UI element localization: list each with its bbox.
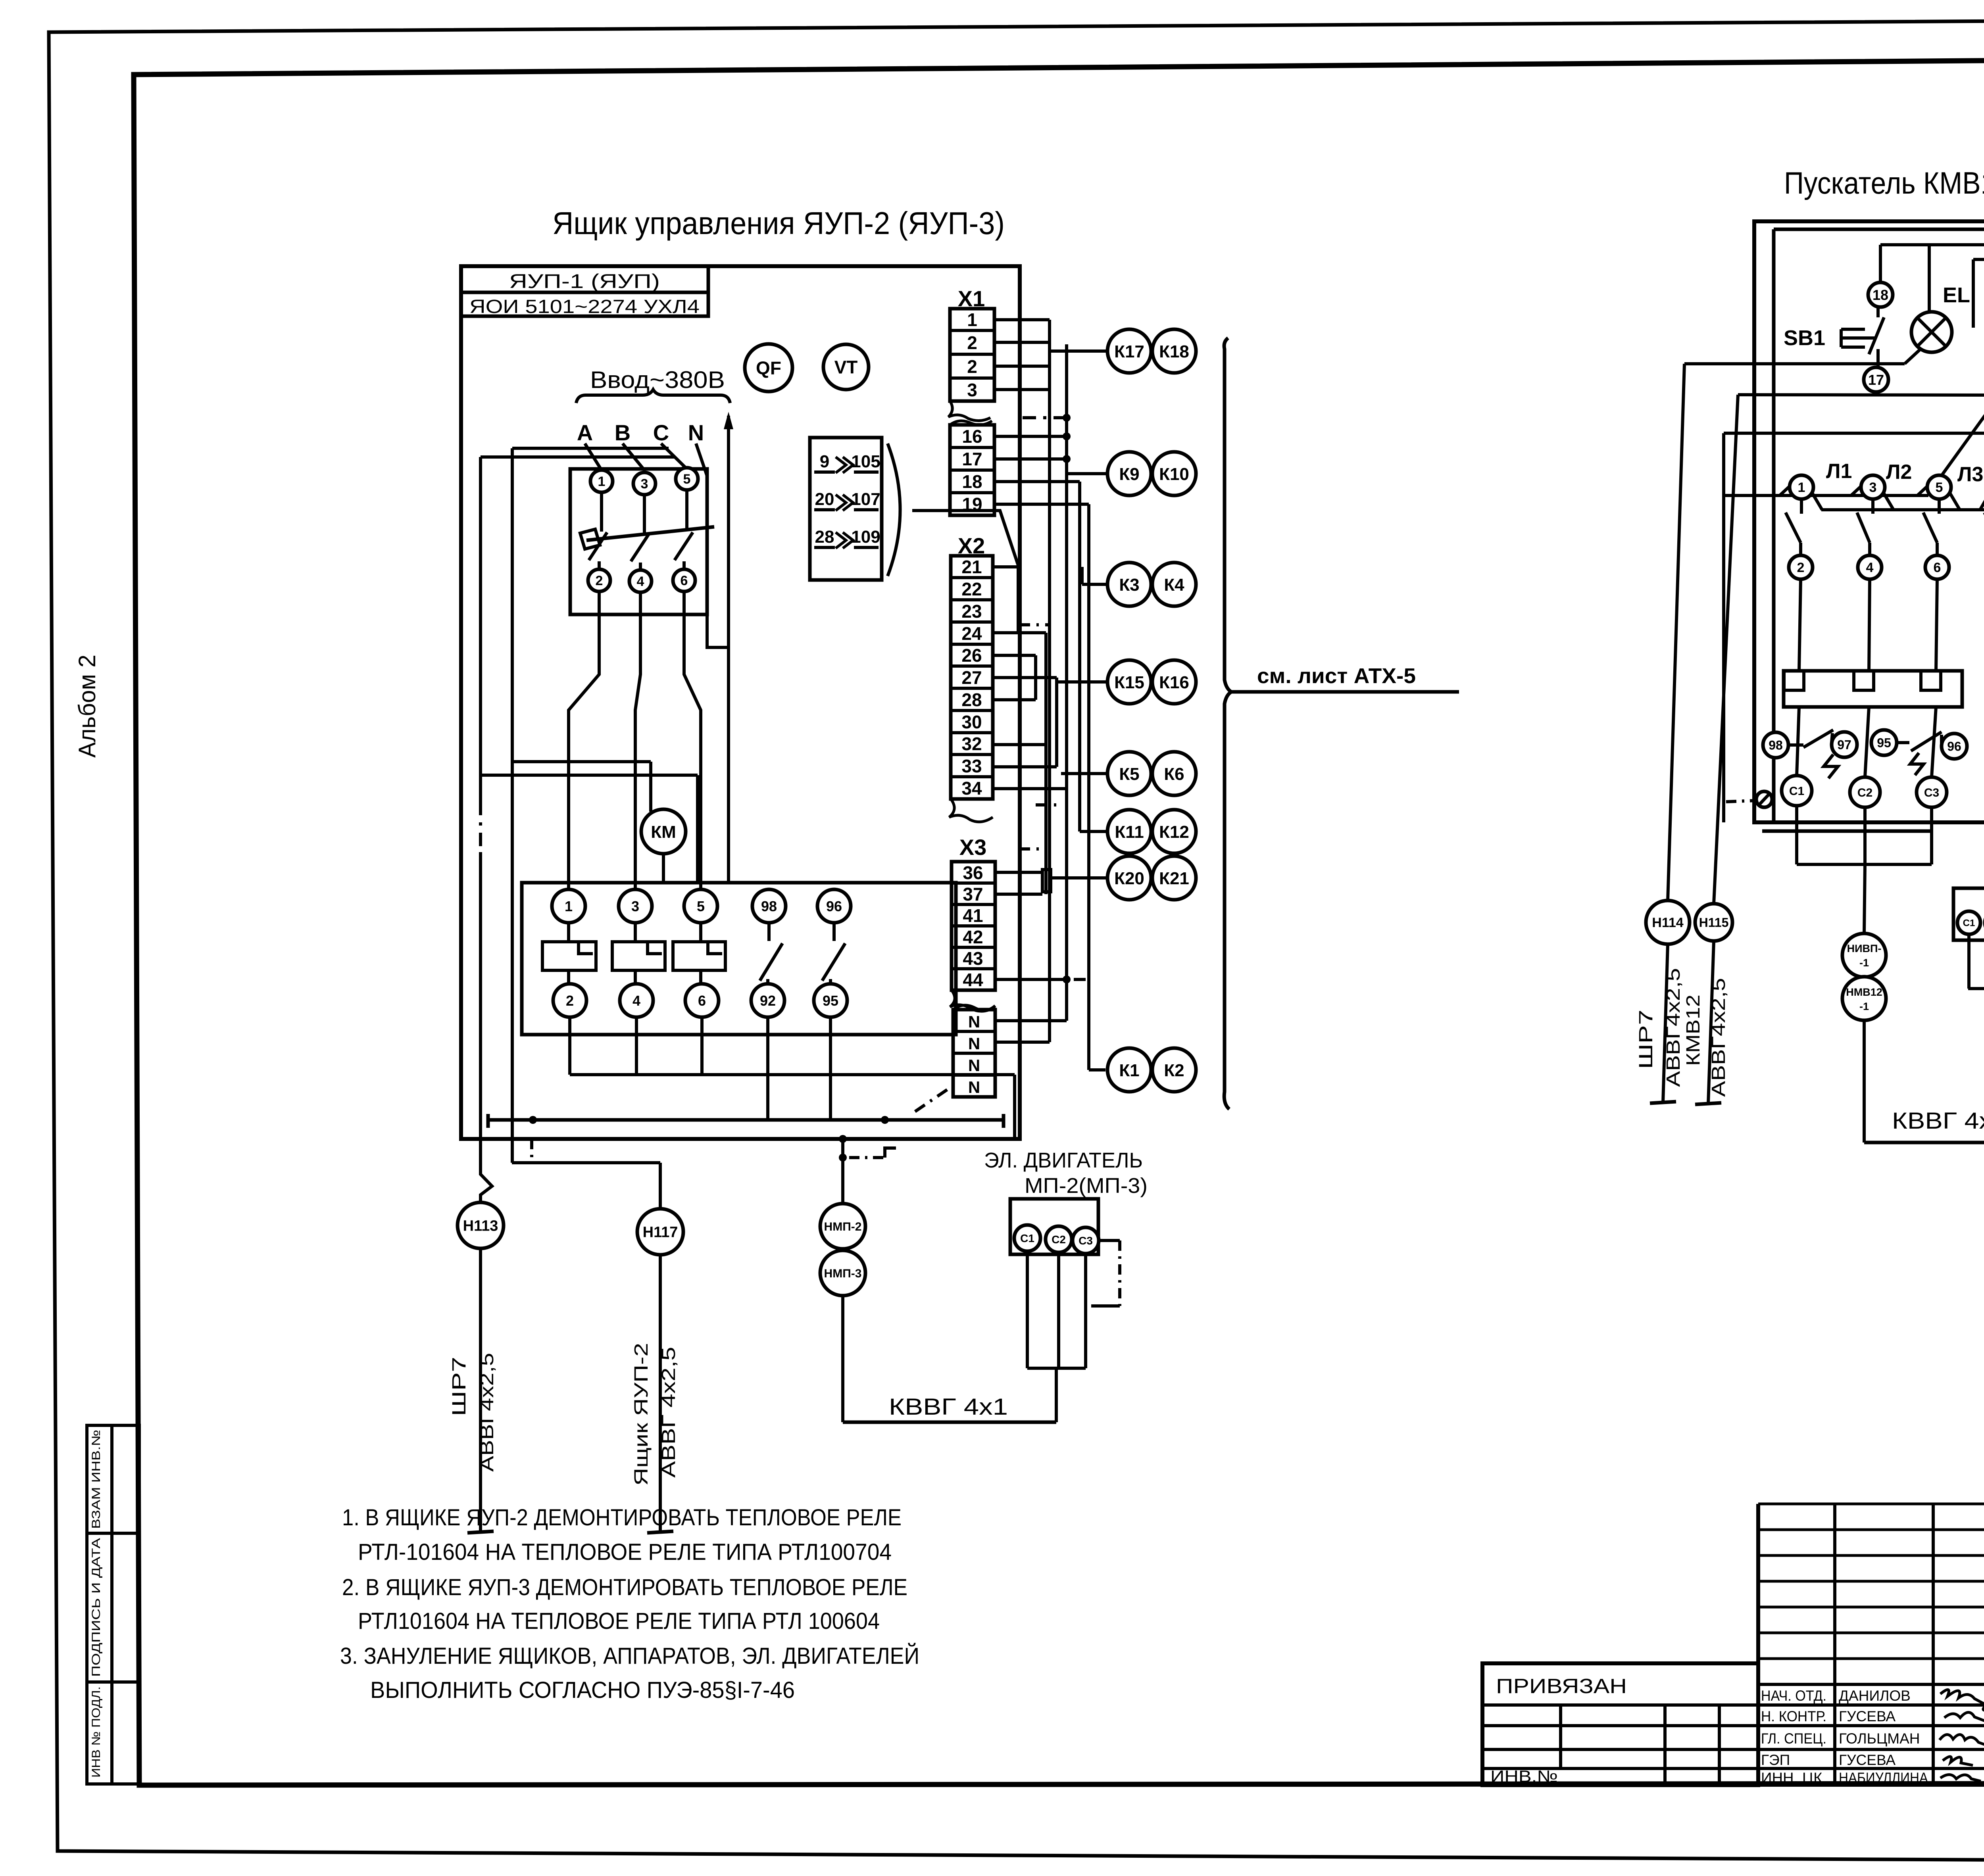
svg-text:К12: К12 [1159, 822, 1189, 842]
svg-text:4: 4 [637, 574, 644, 589]
wire EL feed [1928, 245, 1931, 312]
svg-text:22: 22 [961, 579, 982, 599]
svg-text:N: N [968, 1012, 980, 1031]
contactor terminal 96 top [817, 889, 851, 923]
dash-dot jumper [1023, 416, 1067, 419]
stamp cell ИНВ № ПОДЛ. [87, 1682, 112, 1784]
motor terminal bracket [1027, 1367, 1086, 1370]
svg-text:95: 95 [1877, 736, 1891, 750]
thermal relay box [1784, 671, 1962, 707]
svg-text:N: N [968, 1056, 980, 1075]
dash-dot tap [849, 1156, 885, 1159]
wire: phase B drop [623, 444, 644, 470]
thermal relay VT circle [823, 344, 869, 390]
circuit breaker QF circle [745, 344, 792, 392]
svg-text:-1: -1 [1859, 957, 1869, 969]
svg-text:Н. КОНТР.: Н. КОНТР. [1761, 1708, 1826, 1724]
thermal relay poles down [1797, 707, 1799, 776]
motor lead С1 [1782, 776, 1812, 806]
svg-text:5: 5 [1936, 480, 1943, 495]
svg-text:К16: К16 [1159, 673, 1189, 692]
pole feed diagonals [1780, 475, 1801, 495]
terminal 17 circle [1864, 367, 1888, 392]
svg-text:К4: К4 [1164, 575, 1184, 595]
svg-text:20: 20 [815, 490, 834, 509]
wires X3 [995, 871, 1042, 874]
neutral bus inside box [488, 1118, 1004, 1122]
svg-text:К3: К3 [1119, 575, 1139, 595]
wire: left feed vertical to H117 branch [511, 448, 514, 1163]
svg-text:97: 97 [1837, 738, 1851, 752]
svg-text:19: 19 [962, 494, 982, 515]
wire to relay pair K17 K18 [1050, 349, 1107, 353]
wires from contactor bottoms [568, 1017, 571, 1075]
rising arrow line to contactor [727, 416, 730, 883]
wire to relay pair K1 K2 [1087, 979, 1090, 1070]
breaker pole wires and contacts [600, 492, 603, 532]
svg-text:ШР7: ШР7 [1636, 1010, 1657, 1069]
relay contact pair K3 [1107, 563, 1151, 606]
svg-text:N: N [968, 1034, 980, 1053]
relay contact pair K17 [1107, 329, 1151, 373]
connector block 9/20/28 -> 105/107/109 [810, 438, 882, 580]
svg-text:ДАНИЛОВ: ДАНИЛОВ [1839, 1688, 1911, 1704]
auxiliary contact 98 [767, 923, 771, 941]
wire to relay pair K5 K6 [1061, 772, 1108, 775]
wire: left feed vertical to H113 [479, 457, 482, 802]
SB1 contact [1869, 317, 1884, 354]
svg-text:ПОДПИСЬ И ДАТА: ПОДПИСЬ И ДАТА [90, 1538, 103, 1677]
svg-text:-1: -1 [1859, 1000, 1869, 1012]
brace under Ввод [576, 390, 730, 403]
wires X2 [993, 565, 1018, 568]
svg-text:EL: EL [1943, 283, 1970, 307]
svg-text:НАБИУЛЛИНА: НАБИУЛЛИНА [1839, 1770, 1928, 1786]
svg-text:Н113: Н113 [463, 1218, 498, 1235]
motor terminal С1 [1014, 1225, 1040, 1251]
svg-text:Н114: Н114 [1652, 915, 1683, 930]
svg-text:АВВГ 4х2,5: АВВГ 4х2,5 [658, 1347, 679, 1478]
svg-text:ЯОИ 5101~2274 УХЛ4: ЯОИ 5101~2274 УХЛ4 [469, 296, 700, 317]
wire to relay pair K3 K4 [1082, 583, 1107, 586]
svg-text:9: 9 [820, 452, 829, 471]
svg-text:ИНН. ЦК.: ИНН. ЦК. [1761, 1770, 1826, 1786]
svg-text:41: 41 [963, 905, 983, 926]
terminal strip X1 cells 16-19 [950, 425, 994, 515]
relay contact pair K15 [1107, 660, 1151, 704]
svg-text:К6: К6 [1164, 764, 1184, 784]
contactor terminal 6 bottom [685, 984, 719, 1017]
svg-text:X3: X3 [959, 835, 987, 860]
svg-text:2: 2 [596, 573, 603, 588]
svg-text:3. ЗАНУЛЕНИЕ ЯЩИКОВ, АППАРАТО: 3. ЗАНУЛЕНИЕ ЯЩИКОВ, АППАРАТОВ, ЭЛ. ДВИГ… [340, 1643, 919, 1669]
svg-text:3: 3 [967, 380, 977, 400]
svg-text:98: 98 [1769, 738, 1783, 753]
svg-text:Н115: Н115 [1699, 916, 1729, 930]
svg-text:ГОЛЬЦМАН: ГОЛЬЦМАН [1839, 1730, 1920, 1747]
wire: N drop to arrow line [696, 444, 729, 647]
svg-text:С2: С2 [1857, 786, 1872, 799]
svg-text:К5: К5 [1119, 764, 1139, 784]
wire KM to contactor [662, 854, 665, 883]
svg-text:A: A [577, 420, 593, 445]
contactor coil KM circle [641, 809, 686, 854]
thermal elements in contactor [542, 942, 596, 970]
svg-text:К17: К17 [1114, 342, 1144, 361]
cable circles НИВП-1 / НМВ12-1 [1842, 933, 1886, 977]
svg-text:34: 34 [961, 778, 982, 799]
svg-text:N: N [968, 1078, 980, 1096]
lamp circle Н113 [481, 1139, 492, 1202]
svg-text:С3: С3 [1924, 786, 1939, 799]
svg-text:2: 2 [967, 332, 977, 353]
wires X1 group 2 [994, 435, 1067, 438]
svg-text:95: 95 [823, 993, 838, 1009]
svg-text:37: 37 [963, 884, 983, 904]
svg-text:Н117: Н117 [643, 1224, 678, 1241]
svg-text:3: 3 [1869, 480, 1877, 495]
svg-text:НАЧ. ОТД.: НАЧ. ОТД. [1761, 1688, 1826, 1704]
svg-text:КВВГ 4х1: КВВГ 4х1 [1892, 1108, 1984, 1134]
starter outer box [1754, 221, 1984, 822]
terminal strip X3 cells 36-44 [952, 862, 995, 990]
terminal 4 circle [1858, 555, 1882, 579]
svg-text:РТЛ101604 НА ТЕПЛОВОЕ РЕЛЕ ТИ: РТЛ101604 НА ТЕПЛОВОЕ РЕЛЕ ТИПА РТЛ 1006… [358, 1608, 880, 1634]
motor lead С3 [1917, 777, 1947, 807]
feeder to Н115 [1714, 395, 1738, 904]
svg-text:С3: С3 [1079, 1235, 1093, 1247]
terminal 3 circle [1861, 475, 1885, 499]
junction box near X3 [1042, 870, 1051, 892]
collector bracket under box [1795, 806, 1798, 864]
svg-text:17: 17 [1868, 372, 1884, 388]
starter circles НМП-2 НМП-3 [841, 1139, 844, 1204]
svg-text:Л1: Л1 [1826, 460, 1852, 483]
svg-text:6: 6 [698, 993, 706, 1009]
thermal contact terminal 95 [1871, 730, 1897, 755]
svg-text:B: B [615, 420, 631, 445]
wire ladder X1 group 1 [994, 318, 1050, 321]
contactor terminal 92 bottom [751, 984, 784, 1017]
signature scribbles [1940, 1690, 1984, 1710]
svg-text:НМВ12: НМВ12 [1846, 986, 1882, 998]
lamp circle Н117 [530, 1139, 533, 1163]
strip tear X3 [950, 990, 995, 1011]
terminal strip N cells [953, 1010, 995, 1097]
ground symbol [1756, 791, 1772, 807]
svg-text:28: 28 [961, 689, 982, 710]
svg-text:C: C [653, 420, 669, 445]
svg-text:92: 92 [760, 993, 776, 1009]
svg-text:5: 5 [683, 472, 691, 487]
breaker linked crossbar [586, 527, 714, 540]
breaker QF box [570, 469, 707, 614]
svg-text:44: 44 [963, 970, 983, 990]
motor terminal С1 [1957, 911, 1980, 934]
svg-text:АВВГ4х2,5: АВВГ4х2,5 [1708, 978, 1729, 1097]
wire to relay pair K11 K12 [1080, 830, 1110, 833]
svg-text:Л2: Л2 [1886, 461, 1912, 484]
svg-text:6: 6 [1934, 560, 1941, 575]
terminal 2 circle [1789, 555, 1813, 579]
wire to relay pair K9 K10 [1067, 472, 1107, 475]
svg-text:ВЫПОЛНИТЬ СОГЛАСНО ПУЭ-85§I-7: ВЫПОЛНИТЬ СОГЛАСНО ПУЭ-85§I-7-46 [370, 1677, 795, 1703]
motor box МП-2 [1010, 1199, 1098, 1254]
starter inner box lines [1774, 228, 1984, 231]
strip tear [948, 401, 990, 421]
svg-text:К2: К2 [1164, 1061, 1184, 1080]
dash-dot jumpers X2 [1018, 623, 1050, 626]
svg-text:23: 23 [961, 601, 982, 622]
auxiliary wire [481, 774, 698, 777]
svg-text:АВВГ4х2,5: АВВГ4х2,5 [1663, 968, 1684, 1087]
svg-text:2: 2 [967, 356, 977, 377]
label box ЯУП-1(ЯУП) / ЯОИ 5101-2274 УХЛ4 [461, 266, 708, 316]
svg-text:РТЛ-101604 НА ТЕПЛОВОЕ РЕЛЕ: РТЛ-101604 НА ТЕПЛОВОЕ РЕЛЕ ТИПА РТЛ1007… [358, 1539, 892, 1565]
svg-text:НМП-2: НМП-2 [824, 1220, 862, 1233]
svg-text:109: 109 [851, 527, 880, 547]
svg-text:К9: К9 [1119, 465, 1139, 484]
svg-text:К10: К10 [1159, 465, 1189, 484]
svg-text:N: N [688, 420, 704, 445]
svg-text:1: 1 [598, 474, 606, 489]
auxiliary contact 96 [832, 923, 836, 941]
breaker pole terminal 4 [629, 570, 652, 592]
svg-text:КВВГ 4х1: КВВГ 4х1 [889, 1394, 1008, 1420]
svg-text:ГУСЕВА: ГУСЕВА [1839, 1752, 1896, 1768]
svg-text:ИНВ № ПОДЛ.: ИНВ № ПОДЛ. [90, 1686, 103, 1778]
wire vertical SB1 pole [1876, 307, 1880, 317]
svg-text:ГУСЕВА: ГУСЕВА [1839, 1708, 1896, 1724]
svg-text:30: 30 [961, 712, 982, 732]
wire loop from 18 [1879, 245, 1882, 282]
svg-text:1: 1 [967, 309, 977, 330]
svg-text:107: 107 [851, 490, 880, 509]
svg-text:32: 32 [961, 734, 982, 754]
svg-text:16: 16 [962, 426, 982, 447]
relay contact pair K20 [1107, 856, 1151, 900]
svg-text:26: 26 [961, 645, 982, 666]
svg-text:Ввод~380В: Ввод~380В [590, 367, 725, 393]
stamp ПРИВЯЗАН table [1482, 1663, 1758, 1785]
breaker pole terminal 5 [676, 468, 698, 490]
svg-text:1: 1 [1798, 480, 1805, 495]
svg-text:ИНВ.№: ИНВ.№ [1490, 1767, 1558, 1786]
svg-text:96: 96 [826, 898, 842, 914]
svg-text:2. В ЯЩИКЕ ЯУП-3 ДЕМОНТИРОВАТЬ: 2. В ЯЩИКЕ ЯУП-3 ДЕМОНТИРОВАТЬ ТЕПЛОВОЕ … [342, 1575, 907, 1600]
svg-text:17: 17 [962, 449, 982, 469]
revision grid [1758, 1503, 1984, 1505]
svg-text:ГЛ. СПЕЦ.: ГЛ. СПЕЦ. [1761, 1730, 1826, 1747]
svg-text:98: 98 [761, 898, 777, 914]
contactor terminal 4 bottom [620, 984, 653, 1017]
svg-text:К1: К1 [1119, 1061, 1139, 1080]
svg-text:3: 3 [631, 898, 639, 914]
reference line см. лист АТХ-5 [1224, 338, 1231, 1109]
wire to KM coil [512, 760, 651, 763]
thermal contact blades [1788, 743, 1803, 747]
wire: phase A drop [585, 444, 602, 470]
contactor KM box [522, 883, 956, 1035]
cable КВВГ 4х1 run [843, 1421, 1056, 1424]
pole wires to thermal relay [1799, 579, 1801, 671]
svg-text:ШР7: ШР7 [449, 1357, 470, 1416]
wire to relay pair K15 K16 [1057, 680, 1110, 684]
svg-text:К15: К15 [1114, 673, 1144, 692]
motor terminal С2 [1046, 1226, 1072, 1252]
terminal strip X1 cells 1,2,2,3 [950, 309, 994, 401]
svg-text:ВЗАМ ИНВ.№: ВЗАМ ИНВ.№ [90, 1430, 103, 1529]
motor terminal С3 [1073, 1227, 1099, 1254]
motor bracket [1967, 934, 1971, 989]
svg-text:2: 2 [1797, 560, 1805, 575]
svg-text:18: 18 [962, 471, 982, 492]
terminal strip X2 cells 21-34 [951, 556, 993, 799]
wire to relay pair K20 K21 [1051, 876, 1108, 879]
wires N cells [997, 1019, 1067, 1022]
svg-text:Л3: Л3 [1957, 463, 1983, 486]
svg-text:43: 43 [963, 948, 983, 969]
grounding stub [1099, 1239, 1120, 1242]
svg-text:К18: К18 [1159, 342, 1189, 361]
svg-text:КМ: КМ [651, 822, 676, 842]
diagonal 95 to 5 [1942, 395, 1984, 474]
svg-text:Альбом 2: Альбом 2 [74, 655, 100, 758]
svg-text:см. лист АТХ-5: см. лист АТХ-5 [1257, 664, 1416, 688]
breaker pole terminal 6 [673, 569, 695, 591]
svg-text:С1: С1 [1020, 1232, 1034, 1244]
terminal 18 circle [1868, 282, 1893, 307]
thermal contact terminal 96 [1942, 734, 1967, 759]
svg-text:К20: К20 [1114, 869, 1144, 888]
svg-text:4: 4 [1866, 560, 1874, 575]
svg-text:НМП-3: НМП-3 [824, 1267, 862, 1280]
wire horizontals into box [1684, 362, 1905, 365]
contactor terminal 2 bottom [553, 984, 586, 1017]
terminal 5 circle [1927, 475, 1951, 499]
svg-text:К11: К11 [1115, 822, 1144, 842]
svg-text:С2: С2 [1052, 1233, 1066, 1246]
svg-text:105: 105 [851, 452, 880, 471]
svg-text:4: 4 [632, 993, 640, 1009]
lamp EL [1911, 312, 1952, 352]
svg-text:18: 18 [1872, 287, 1888, 303]
breaker pole terminal 2 [588, 569, 610, 591]
svg-text:1. В ЯЩИКЕ ЯУП-2 ДЕМОНТИРОВАТЬ: 1. В ЯЩИКЕ ЯУП-2 ДЕМОНТИРОВАТЬ ТЕПЛОВОЕ … [342, 1505, 902, 1530]
terminal 6 circle [1925, 555, 1949, 579]
relay contact pair K11 [1107, 810, 1151, 853]
relay contact pair K9 [1107, 452, 1151, 495]
long bus verticals [1065, 344, 1068, 1021]
svg-text:КМВ12: КМВ12 [1683, 995, 1704, 1066]
relay contact pair K5 [1107, 752, 1151, 795]
svg-text:96: 96 [1947, 739, 1961, 754]
svg-text:24: 24 [961, 623, 982, 644]
svg-text:Ящик ЯУП-2: Ящик ЯУП-2 [631, 1343, 652, 1486]
contactor terminal 3 top [619, 889, 652, 923]
svg-text:ПРИВЯЗАН: ПРИВЯЗАН [1496, 1675, 1627, 1698]
svg-text:2: 2 [566, 993, 574, 1009]
cable КВВГ 4х1 run right [1864, 1141, 1984, 1144]
relay contact pair K1 [1107, 1048, 1151, 1092]
strip tear X2 [949, 799, 993, 822]
wires breaker to contactor [569, 591, 599, 889]
svg-text:21: 21 [961, 557, 982, 577]
svg-text:К21: К21 [1159, 869, 1189, 888]
svg-text:28: 28 [815, 527, 834, 547]
svg-text:5: 5 [697, 898, 705, 914]
svg-text:С1: С1 [1789, 785, 1804, 798]
svg-text:QF: QF [756, 358, 781, 378]
svg-text:1: 1 [565, 898, 573, 914]
svg-text:С1: С1 [1963, 918, 1975, 929]
svg-text:АВВГ4х2,5: АВВГ4х2,5 [477, 1353, 498, 1472]
svg-text:ГЭП: ГЭП [1761, 1752, 1790, 1768]
svg-text:42: 42 [963, 927, 983, 947]
svg-text:VT: VT [834, 357, 858, 378]
feed wire horizontals [512, 447, 669, 450]
svg-text:ЯУП-1 (ЯУП): ЯУП-1 (ЯУП) [509, 270, 660, 292]
svg-text:3: 3 [641, 476, 648, 492]
terminal 1 circle [1790, 475, 1813, 499]
contactor terminal 98 top [752, 889, 786, 923]
wire: phase C drop [661, 444, 687, 469]
svg-text:Пускатель КМВ11 (КМВ12): Пускатель КМВ11 (КМВ12) [1784, 165, 1984, 200]
svg-text:36: 36 [963, 862, 983, 883]
wires 92 95 to bus [766, 1017, 769, 1120]
motor box МВ-11 [1953, 888, 1984, 940]
thermal contact terminal 98 [1763, 732, 1788, 758]
grounding dash-dot diagonal [915, 1087, 951, 1112]
motor lead С2 [1850, 777, 1880, 807]
svg-text:6: 6 [681, 573, 688, 588]
svg-text:SB1: SB1 [1784, 326, 1825, 350]
svg-text:НИВП-: НИВП- [1847, 943, 1882, 954]
stamp cell ВЗАМ ИНВ.№ [87, 1425, 112, 1533]
thermal contact terminal 97 [1832, 732, 1857, 757]
svg-text:27: 27 [961, 667, 982, 688]
stamp cell ПОДПИСЬ И ДАТА [87, 1533, 112, 1682]
svg-text:Ящик управления ЯУП-2 (ЯУП-3: Ящик управления ЯУП-2 (ЯУП-3) [552, 205, 1005, 241]
main contacts [1800, 499, 1803, 514]
contactor terminal 1 top [552, 889, 585, 923]
bus wires over poles [1724, 494, 1928, 497]
contactor terminal 95 bottom [814, 984, 847, 1017]
contactor terminal 5 top [684, 889, 717, 923]
breaker contact blades [589, 532, 607, 560]
svg-text:МП-2(МП-3): МП-2(МП-3) [1025, 1174, 1148, 1198]
svg-text:ЭЛ. ДВИГАТЕЛЬ: ЭЛ. ДВИГАТЕЛЬ [984, 1148, 1143, 1172]
feeder to Н114 [1668, 364, 1684, 901]
breaker pole terminal 1 [590, 470, 613, 492]
breaker pole terminal 3 [633, 472, 656, 495]
svg-text:33: 33 [961, 756, 982, 776]
connector bracket [888, 444, 900, 576]
control box ЯУП outline [461, 266, 1020, 1139]
